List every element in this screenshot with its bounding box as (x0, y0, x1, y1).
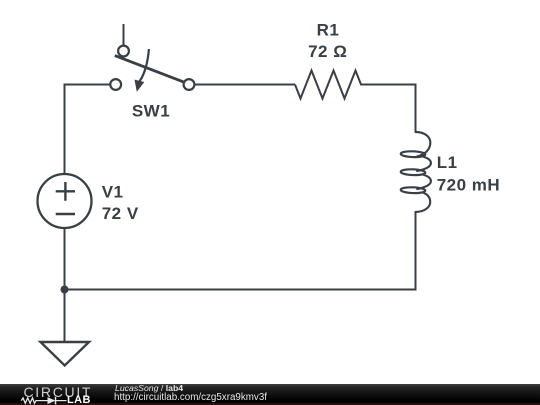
switch SW1 arrowhead (135, 80, 145, 92)
svg-text:72 V: 72 V (102, 204, 139, 223)
switch SW1 right terminal circle (184, 79, 195, 90)
wire switch right terminal to resistor R1 (195, 84, 296, 86)
footer url text (114, 393, 267, 403)
footer bar (0, 384, 540, 405)
inductor L1 (401, 132, 431, 213)
ground symbol (41, 342, 90, 366)
switch SW1 top terminal circle (118, 46, 129, 57)
switch SW1 top terminal stub (123, 24, 125, 45)
footer author text (115, 384, 183, 393)
svg-text:R1: R1 (317, 21, 340, 40)
svg-text:72 Ω: 72 Ω (308, 42, 347, 61)
switch SW1 left terminal circle (110, 79, 121, 90)
CircuitLab logo LAB (67, 395, 91, 405)
wire right vertical bottom (L1 to bottom rail) (415, 213, 417, 290)
wire bottom rail (65, 289, 417, 291)
resistor R1 (295, 71, 416, 99)
V1 plus sign (56, 182, 75, 201)
voltage source V1 circle (38, 174, 92, 228)
wire left vertical bottom (V1 to node) (64, 228, 66, 290)
wire left vertical top (top rail to V1) (64, 84, 66, 175)
switch SW1 blade (115, 56, 185, 83)
svg-text:V1: V1 (102, 183, 124, 202)
wire node to ground (64, 290, 66, 343)
switch SW1 throw arrow arc (140, 49, 149, 81)
wire right vertical top (R1 to L1) (415, 84, 417, 133)
CircuitLab logo resistor and diode line (0, 384, 70, 405)
svg-text:SW1: SW1 (132, 102, 170, 121)
CircuitLab logo wordmark CIRCUIT (24, 385, 93, 399)
node junction (bottom-left) (61, 286, 69, 294)
V1 minus sign (56, 213, 75, 215)
wire top-left corner to switch left terminal (65, 84, 111, 86)
svg-text:720 mH: 720 mH (437, 175, 500, 194)
svg-text:L1: L1 (437, 153, 458, 172)
